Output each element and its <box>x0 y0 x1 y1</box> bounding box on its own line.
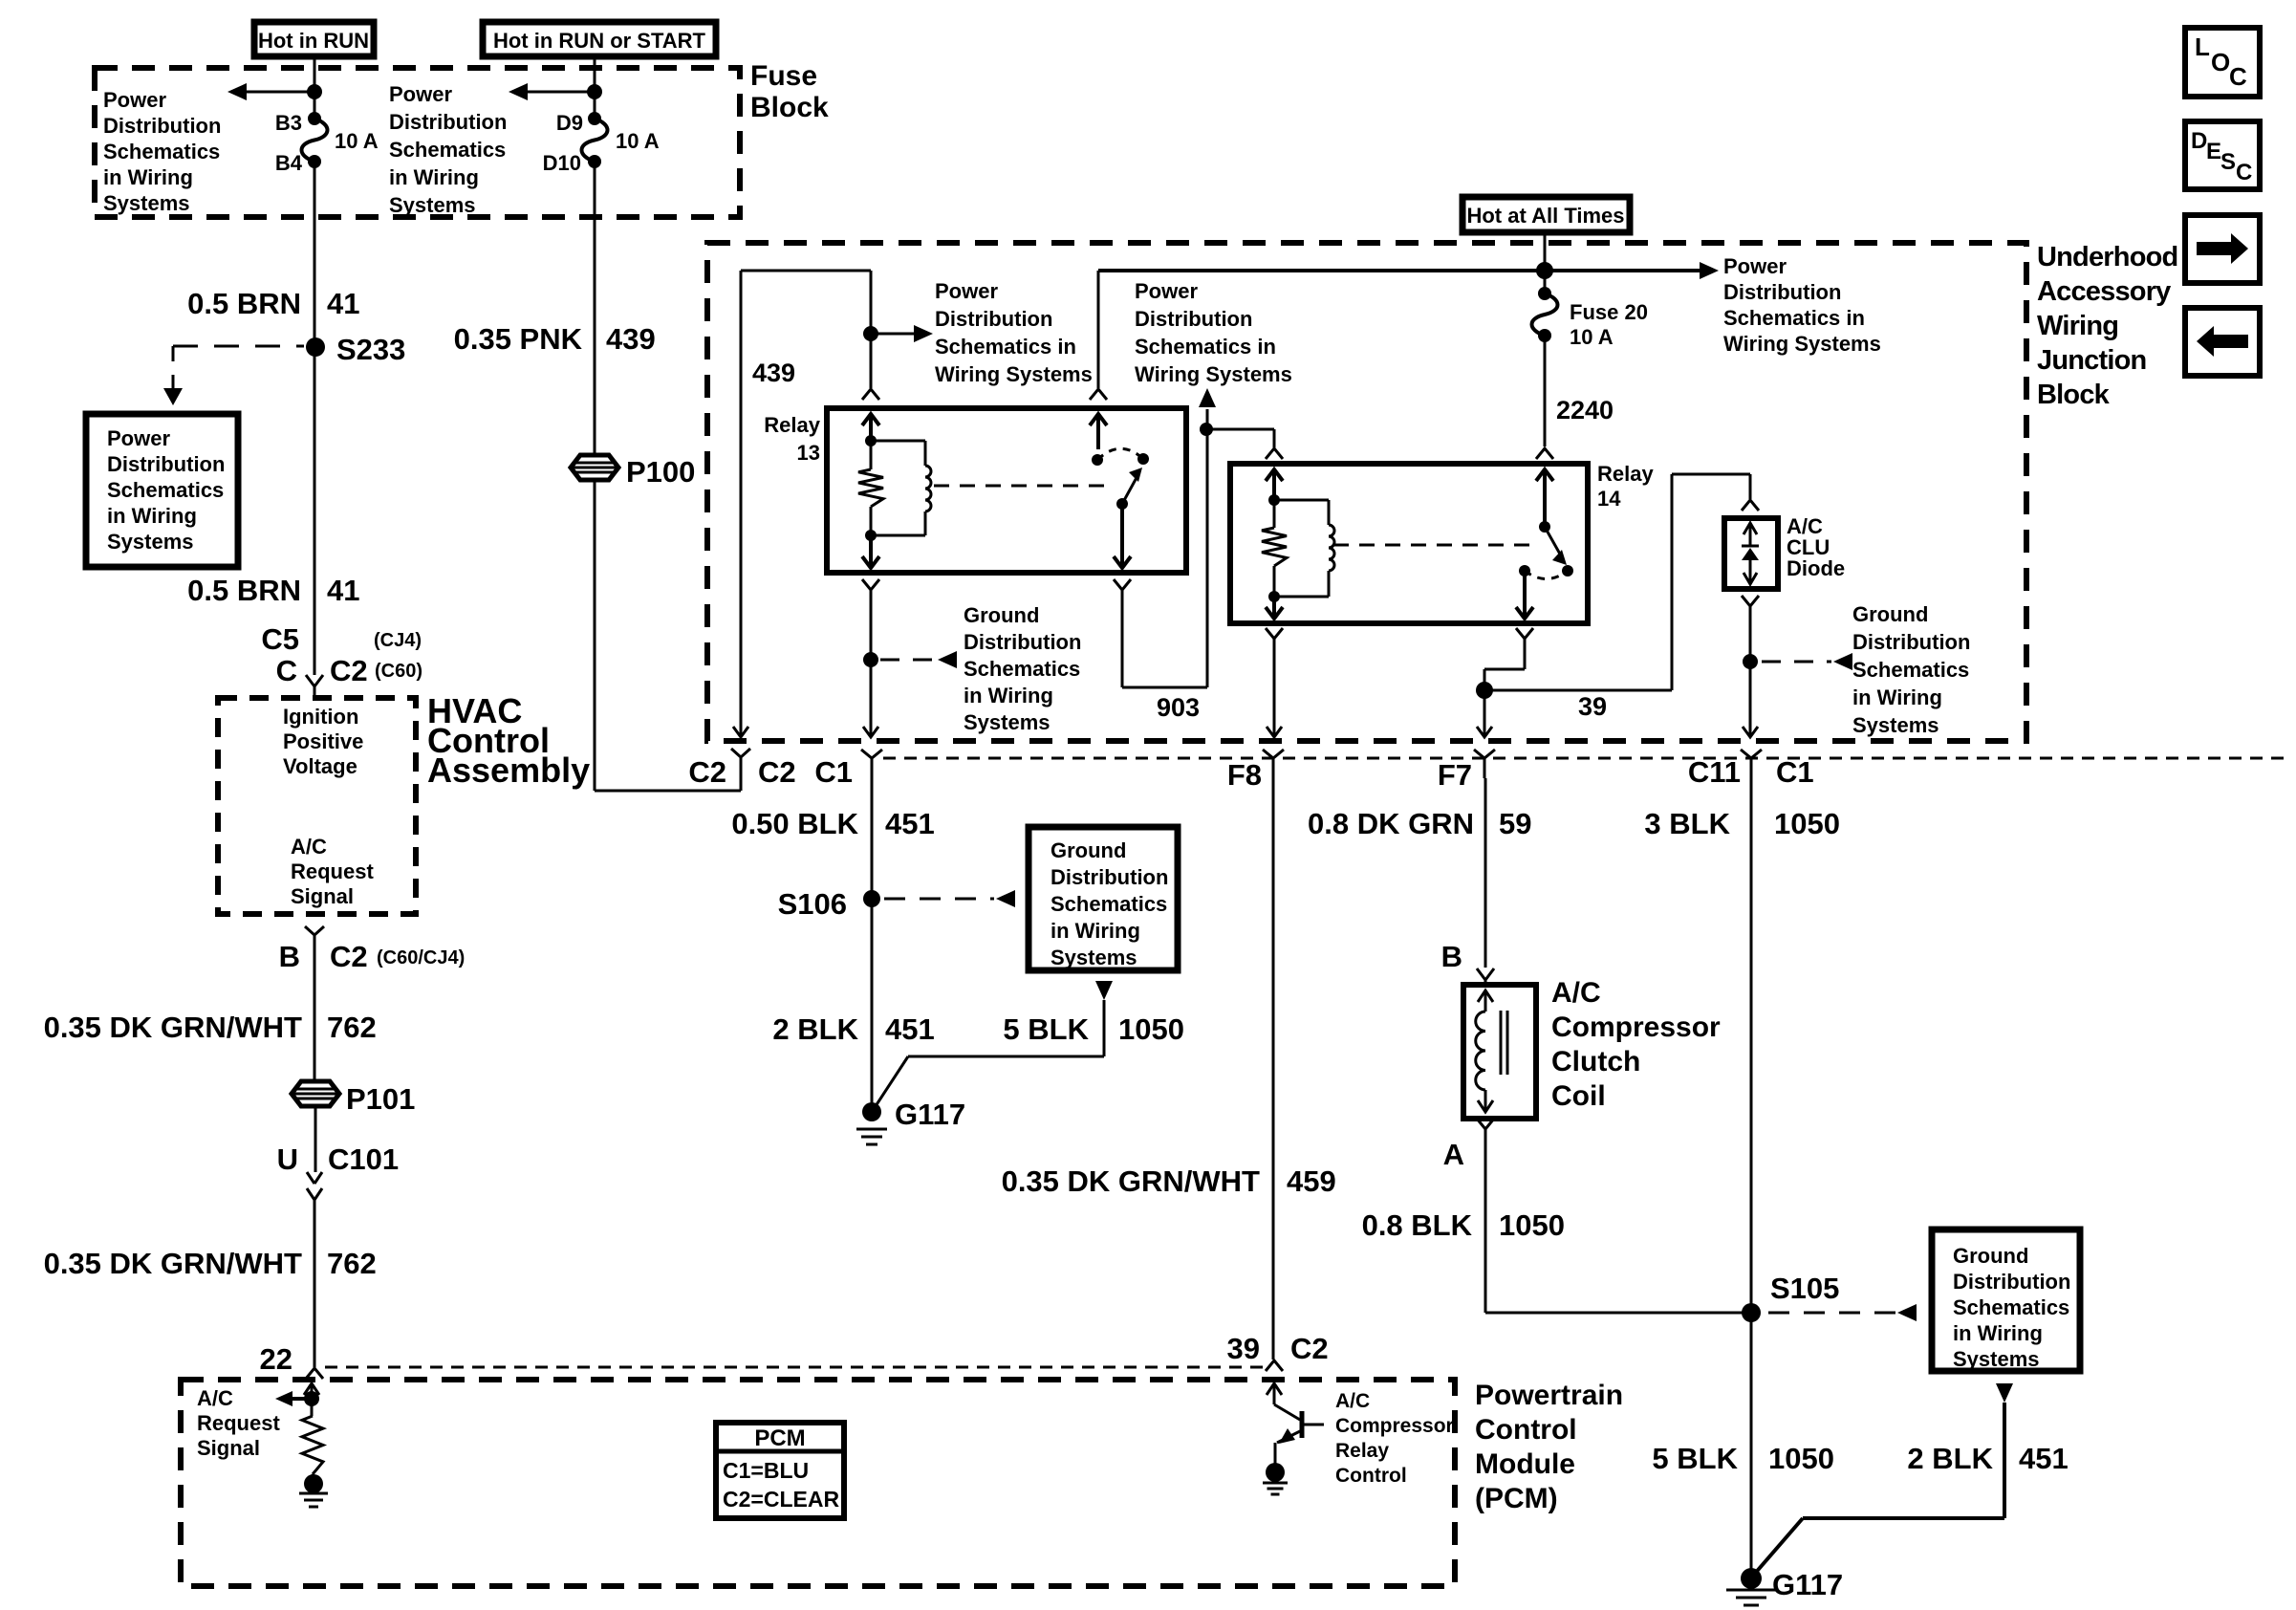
banner: Hot in RUN <box>254 22 374 56</box>
svg-text:in Wiring: in Wiring <box>389 165 479 189</box>
wire 439 inside junction block <box>741 270 871 272</box>
dashed reference to Ground Distribution text <box>880 659 936 662</box>
svg-text:22: 22 <box>260 1342 292 1376</box>
svg-text:Signal: Signal <box>291 884 354 908</box>
svg-text:F8: F8 <box>1227 758 1262 792</box>
svg-text:(PCM): (PCM) <box>1475 1483 1558 1514</box>
svg-text:Relay: Relay <box>1597 462 1654 486</box>
wire PNK below fuse <box>594 162 596 456</box>
svg-text:2240: 2240 <box>1556 396 1614 424</box>
svg-text:Wiring Systems: Wiring Systems <box>1723 332 1881 356</box>
wire 762 lower <box>314 1200 316 1367</box>
svg-text:2 BLK: 2 BLK <box>772 1012 858 1046</box>
svg-text:C1: C1 <box>1776 755 1814 789</box>
svg-text:Distribution: Distribution <box>389 110 507 134</box>
svg-text:0.8 DK GRN: 0.8 DK GRN <box>1308 807 1474 840</box>
svg-text:Schematics: Schematics <box>1051 892 1167 916</box>
banner: Hot in RUN or START <box>483 22 716 56</box>
svg-text:Schematics: Schematics <box>389 138 506 162</box>
svg-text:G117: G117 <box>895 1098 965 1131</box>
svg-text:Ground: Ground <box>1051 838 1126 862</box>
svg-text:in Wiring: in Wiring <box>103 165 193 189</box>
svg-text:in Wiring: in Wiring <box>1953 1321 2043 1345</box>
svg-text:10 A: 10 A <box>335 129 379 153</box>
svg-text:Distribution: Distribution <box>1051 865 1168 889</box>
svg-text:Systems: Systems <box>1852 713 1939 737</box>
svg-text:S: S <box>2220 149 2236 175</box>
fuse D9/D10 10 A <box>588 112 601 125</box>
svg-text:A/C: A/C <box>1335 1390 1370 1412</box>
svg-text:10 A: 10 A <box>616 129 660 153</box>
wire 439 external run from P100 <box>594 479 596 791</box>
wire 1050 from clutch coil to S105 <box>1484 1129 1487 1313</box>
reference box: Ground Distribution Schematics (middle) <box>1029 827 1178 970</box>
svg-text:Block: Block <box>2037 380 2111 410</box>
svg-text:0.35 DK GRN/WHT: 0.35 DK GRN/WHT <box>1002 1164 1260 1198</box>
resistor (A/C request pulldown) <box>302 1416 323 1474</box>
svg-text:O: O <box>2211 48 2230 76</box>
thin dashed connector line at PCM <box>325 1366 1268 1369</box>
connector F7 of junction block <box>1474 750 1495 758</box>
relay 13 switch feed <box>1097 271 1100 388</box>
svg-text:Power: Power <box>107 426 170 450</box>
wire 451 from reference box to G117 (right) <box>2003 1403 2006 1518</box>
svg-text:E: E <box>2206 139 2221 164</box>
junction dot to Power Distribution text <box>863 326 878 341</box>
svg-text:S106: S106 <box>778 887 847 921</box>
svg-text:Schematics in: Schematics in <box>935 335 1076 359</box>
svg-text:Fuse: Fuse <box>750 60 817 92</box>
svg-text:Wiring Systems: Wiring Systems <box>935 362 1093 386</box>
svg-text:C1: C1 <box>814 755 853 789</box>
svg-text:451: 451 <box>885 807 935 840</box>
svg-text:59: 59 <box>1499 807 1531 840</box>
wire from Hot at All Times <box>1544 232 1547 292</box>
dashed reference from S233 <box>173 345 304 348</box>
svg-text:14: 14 <box>1597 487 1621 511</box>
wire 1050 from reference box to G117 <box>1103 1000 1106 1056</box>
pass-through grommet P101 <box>292 1081 339 1106</box>
splice S106 <box>863 890 880 907</box>
svg-text:Systems: Systems <box>1051 946 1137 969</box>
relay 13 coil feed wire <box>870 271 873 388</box>
svg-text:C2=CLEAR: C2=CLEAR <box>723 1487 839 1512</box>
connector C2 to junction block <box>731 749 750 757</box>
svg-text:Power: Power <box>935 279 998 303</box>
thin dashed connector line at junction block <box>883 757 2285 760</box>
svg-text:PCM: PCM <box>754 1425 805 1451</box>
arrow below reference box (right) <box>1996 1383 2013 1403</box>
reference box: Ground Distribution Schematics (right) <box>1932 1229 2080 1371</box>
pass-through grommet P100 <box>571 455 618 480</box>
svg-text:Schematics: Schematics <box>103 140 220 163</box>
svg-text:451: 451 <box>885 1012 935 1046</box>
svg-text:C: C <box>276 654 297 687</box>
svg-text:Systems: Systems <box>389 193 476 217</box>
svg-text:Systems: Systems <box>964 710 1051 734</box>
ground at transistor emitter <box>1266 1463 1285 1482</box>
relay 13 coil ground wire <box>870 590 873 660</box>
svg-text:C2: C2 <box>330 654 368 687</box>
HVAC Control Assembly dashed box <box>218 698 416 914</box>
svg-text:Powertrain: Powertrain <box>1475 1380 1623 1411</box>
ground G117 (right) <box>1741 1568 1762 1589</box>
junction dot on wire 41 <box>307 84 322 99</box>
svg-text:P100: P100 <box>626 455 695 489</box>
svg-text:0.35 DK GRN/WHT: 0.35 DK GRN/WHT <box>44 1011 302 1044</box>
svg-text:C: C <box>2229 62 2247 91</box>
svg-text:Power: Power <box>1135 279 1198 303</box>
svg-text:13: 13 <box>797 441 820 465</box>
svg-text:F7: F7 <box>1438 758 1472 792</box>
relay 13 box <box>827 408 1186 573</box>
wire 22 into PCM with arrow <box>311 1383 314 1416</box>
svg-text:A/C: A/C <box>1551 977 1601 1009</box>
svg-text:Wiring: Wiring <box>2037 311 2118 341</box>
svg-text:U: U <box>277 1142 298 1176</box>
relay 14 switch feed from fuse 2240 <box>1543 469 1547 527</box>
svg-text:Schematics in: Schematics in <box>1723 306 1865 330</box>
wire 459 from F8 to PCM <box>1272 778 1275 1360</box>
svg-text:C2: C2 <box>330 940 368 973</box>
svg-text:D10: D10 <box>543 151 581 175</box>
svg-text:B: B <box>1441 940 1462 973</box>
svg-text:Schematics: Schematics <box>964 657 1080 681</box>
svg-text:in Wiring: in Wiring <box>964 684 1053 707</box>
svg-text:Distribution: Distribution <box>1135 307 1252 331</box>
svg-text:Assembly: Assembly <box>427 751 590 790</box>
connector C11 C1 of junction block <box>1741 750 1762 758</box>
branch to relay 14 coil <box>1206 428 1274 431</box>
relay 14 coil ground wire to F8 <box>1273 639 1276 736</box>
svg-text:in Wiring: in Wiring <box>1852 685 1942 709</box>
svg-text:C11: C11 <box>1688 755 1741 789</box>
svg-text:903: 903 <box>1157 693 1200 722</box>
wire 762 upper <box>314 951 316 1081</box>
wire to connector F7 <box>1484 690 1486 736</box>
svg-text:Schematics: Schematics <box>1953 1295 2069 1319</box>
svg-text:C1=BLU: C1=BLU <box>723 1458 809 1483</box>
svg-text:C2: C2 <box>688 755 726 789</box>
banner: Hot at All Times <box>1462 197 1630 232</box>
svg-text:Schematics: Schematics <box>1852 658 1969 682</box>
svg-text:0.8 BLK: 0.8 BLK <box>1362 1208 1473 1242</box>
arrow below reference box <box>1095 981 1113 1000</box>
svg-text:Voltage: Voltage <box>283 754 357 778</box>
svg-text:39: 39 <box>1227 1332 1260 1365</box>
ground G117 (left) <box>862 1102 881 1121</box>
underhood junction block dashed boundary <box>707 243 2026 741</box>
svg-text:Power: Power <box>1723 254 1787 278</box>
relay 13 coil branch <box>869 414 873 441</box>
svg-text:Ground: Ground <box>1852 602 1928 626</box>
wire 59 from F7 to clutch coil <box>1484 778 1487 968</box>
svg-text:Schematics in: Schematics in <box>1135 335 1276 359</box>
svg-text:Coil: Coil <box>1551 1080 1606 1112</box>
svg-text:3 BLK: 3 BLK <box>1644 807 1730 840</box>
svg-text:Control: Control <box>1475 1414 1577 1446</box>
svg-text:1050: 1050 <box>1768 1442 1834 1475</box>
svg-text:Control: Control <box>1335 1465 1407 1487</box>
svg-text:Ignition: Ignition <box>283 705 358 729</box>
DESC legend box <box>2185 121 2260 189</box>
svg-text:(C60): (C60) <box>375 661 422 682</box>
svg-text:Signal: Signal <box>197 1436 260 1460</box>
svg-text:Distribution: Distribution <box>1852 630 1970 654</box>
A/C compressor clutch coil <box>1463 985 1536 1119</box>
svg-text:S233: S233 <box>336 333 405 366</box>
relay 14 switch <box>1545 527 1562 557</box>
svg-text:5 BLK: 5 BLK <box>1652 1442 1738 1475</box>
svg-text:G117: G117 <box>1772 1568 1843 1601</box>
svg-text:0.5 BRN: 0.5 BRN <box>187 574 301 607</box>
wire 439/PNK from Hot in RUN or START banner <box>594 56 596 119</box>
dashed reference from S106 <box>884 898 994 901</box>
svg-text:Junction: Junction <box>2037 345 2146 376</box>
connector C1 of junction block <box>861 750 882 758</box>
svg-text:Ground: Ground <box>1953 1244 2028 1268</box>
svg-text:762: 762 <box>327 1247 377 1280</box>
connector B C2 (C60/CJ4) at HVAC bottom <box>305 926 324 935</box>
arrow to Power Distribution (left) <box>247 91 314 94</box>
svg-text:1050: 1050 <box>1118 1012 1184 1046</box>
svg-text:Relay: Relay <box>764 413 820 437</box>
connector symbol at HVAC top <box>306 675 323 686</box>
wire 903 from relay 13 switch <box>1121 590 1124 687</box>
svg-text:Fuse 20: Fuse 20 <box>1570 300 1648 324</box>
fuse B3/B4 10 A <box>308 112 321 125</box>
reference box: Power Distribution Schematics in Wiring Systems <box>86 414 238 567</box>
arrow to Power Distribution (mid) <box>528 91 595 94</box>
svg-text:A/C: A/C <box>197 1386 233 1410</box>
svg-text:451: 451 <box>2019 1442 2069 1475</box>
svg-text:1050: 1050 <box>1499 1208 1565 1242</box>
svg-text:0.50 BLK: 0.50 BLK <box>731 807 858 840</box>
svg-text:C: C <box>2236 160 2252 185</box>
svg-text:Distribution: Distribution <box>103 114 221 138</box>
relay 13 actuation dashed link <box>934 485 1109 488</box>
junction dot on PNK wire <box>587 84 602 99</box>
wire 39 from relay 14 switch <box>1524 639 1527 669</box>
dashed reference to Ground Distribution (diode) <box>1762 661 1831 664</box>
svg-text:P101: P101 <box>346 1082 415 1116</box>
svg-text:Block: Block <box>750 92 829 123</box>
wire 451 from C1 <box>871 778 874 1109</box>
svg-text:C2: C2 <box>1290 1332 1329 1365</box>
svg-text:C5: C5 <box>261 622 299 656</box>
svg-text:D: D <box>2191 128 2207 154</box>
svg-text:0.35 PNK: 0.35 PNK <box>454 322 583 356</box>
svg-text:Request: Request <box>197 1411 280 1435</box>
svg-text:Diode: Diode <box>1787 556 1845 580</box>
wire 41 below fuse <box>314 162 316 675</box>
relay 13 switch <box>1097 448 1143 460</box>
svg-text:439: 439 <box>752 359 795 387</box>
svg-text:Distribution: Distribution <box>1953 1270 2070 1294</box>
svg-text:Systems: Systems <box>1953 1347 2040 1371</box>
PCM dashed boundary <box>181 1380 1455 1586</box>
svg-text:Schematics: Schematics <box>107 478 224 502</box>
svg-text:Distribution: Distribution <box>964 630 1081 654</box>
svg-text:Systems: Systems <box>107 530 194 554</box>
svg-text:439: 439 <box>606 322 656 356</box>
svg-text:Power: Power <box>389 82 452 106</box>
Fuse 20 10 A <box>1538 287 1551 300</box>
bus junction dot <box>1536 262 1553 279</box>
svg-text:D9: D9 <box>556 111 583 135</box>
svg-text:Underhood: Underhood <box>2037 242 2177 272</box>
connector F8 of junction block <box>1263 750 1284 758</box>
svg-text:0.35 DK GRN/WHT: 0.35 DK GRN/WHT <box>44 1247 302 1280</box>
svg-text:Distribution: Distribution <box>935 307 1052 331</box>
right-arrow legend box <box>2185 215 2260 283</box>
svg-text:L: L <box>2195 33 2210 61</box>
svg-text:Ground: Ground <box>964 603 1039 627</box>
junction dot and arrow left (A/C request) <box>304 1391 319 1406</box>
splice S233 <box>306 337 325 357</box>
svg-text:Distribution: Distribution <box>1723 280 1841 304</box>
svg-text:Hot in RUN or START: Hot in RUN or START <box>493 29 706 53</box>
svg-text:Wiring Systems: Wiring Systems <box>1135 362 1292 386</box>
svg-text:B3: B3 <box>275 111 302 135</box>
PCM connector table <box>716 1423 844 1518</box>
svg-text:41: 41 <box>327 287 359 320</box>
svg-text:Relay: Relay <box>1335 1440 1389 1462</box>
arrow down to Power Distribution box <box>172 375 175 390</box>
bus wire to Power Distribution (right) <box>1098 269 1701 272</box>
svg-text:A: A <box>1443 1138 1464 1171</box>
svg-text:Clutch: Clutch <box>1551 1046 1640 1077</box>
svg-text:Compressor: Compressor <box>1551 1012 1721 1043</box>
left-arrow legend box <box>2185 308 2260 376</box>
svg-text:C2: C2 <box>758 755 796 789</box>
svg-text:Systems: Systems <box>103 191 190 215</box>
fuse block dashed boundary <box>95 68 740 217</box>
A/C CLU diode <box>1724 518 1778 589</box>
wire 41 from Hot in RUN banner <box>314 56 316 119</box>
svg-text:Hot at All Times: Hot at All Times <box>1466 204 1624 228</box>
relay 14 coil branch <box>1272 469 1276 500</box>
relay 14 actuation dashed link <box>1333 544 1529 547</box>
svg-text:459: 459 <box>1287 1164 1336 1198</box>
transistor: A/C compressor relay control driver <box>1273 1383 1276 1404</box>
svg-text:5 BLK: 5 BLK <box>1003 1012 1089 1046</box>
svg-text:S105: S105 <box>1770 1272 1839 1305</box>
svg-text:in Wiring: in Wiring <box>107 504 197 528</box>
svg-text:C101: C101 <box>328 1142 399 1176</box>
svg-text:Accessory: Accessory <box>2037 276 2171 307</box>
svg-text:Request: Request <box>291 859 374 883</box>
svg-text:762: 762 <box>327 1011 377 1044</box>
svg-text:Positive: Positive <box>283 729 363 753</box>
svg-text:0.5 BRN: 0.5 BRN <box>187 287 301 320</box>
svg-text:(C60/CJ4): (C60/CJ4) <box>377 947 465 968</box>
svg-text:Compressor: Compressor <box>1335 1415 1454 1437</box>
relay 14 box <box>1230 464 1588 623</box>
svg-text:A/C: A/C <box>291 835 327 859</box>
svg-text:10 A: 10 A <box>1570 325 1614 349</box>
svg-text:Distribution: Distribution <box>107 452 225 476</box>
pin A of clutch coil <box>1477 1119 1494 1129</box>
svg-text:(CJ4): (CJ4) <box>374 630 422 651</box>
ground at PCM resistor <box>304 1474 323 1493</box>
wire 1050 main down to G117 (right) <box>1750 778 1753 1578</box>
splice S105 <box>1742 1303 1761 1322</box>
wire 2240 <box>1544 336 1547 446</box>
svg-text:2 BLK: 2 BLK <box>1907 1442 1993 1475</box>
dashed reference from S105 <box>1768 1312 1895 1315</box>
svg-text:1050: 1050 <box>1774 807 1840 840</box>
LOC legend box <box>2185 28 2260 97</box>
svg-text:41: 41 <box>327 574 359 607</box>
wire 1050 below diode <box>1749 606 1752 662</box>
svg-text:39: 39 <box>1578 692 1607 721</box>
svg-text:in Wiring: in Wiring <box>1051 919 1140 943</box>
svg-text:Power: Power <box>103 88 166 112</box>
svg-text:Module: Module <box>1475 1448 1575 1480</box>
svg-text:B: B <box>279 940 300 973</box>
svg-text:Hot in RUN: Hot in RUN <box>258 29 369 53</box>
svg-text:B4: B4 <box>275 151 303 175</box>
